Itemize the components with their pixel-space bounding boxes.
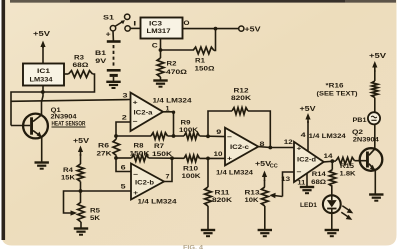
- svg-text:100K: 100K: [179, 127, 198, 134]
- svg-text:I: I: [133, 21, 136, 28]
- ground Q1 emitter: [35, 161, 49, 163]
- svg-text:2: 2: [122, 115, 127, 122]
- transistor Q1 2N3904 heat sensor: [11, 114, 48, 163]
- wire IC3 adj node: [161, 39, 194, 59]
- svg-text:R1: R1: [195, 58, 205, 65]
- svg-text:1/4 LM324: 1/4 LM324: [216, 170, 253, 177]
- svg-text:O: O: [184, 20, 190, 27]
- ground Q2 emitter: [369, 193, 383, 195]
- wire S1 to IC3 input: [130, 21, 140, 29]
- pin 11 and ground: [297, 173, 307, 187]
- svg-text:10K: 10K: [245, 197, 259, 204]
- junction row1 left: [114, 134, 118, 138]
- power +5V (top right): [369, 51, 386, 81]
- label Q2: [352, 129, 379, 144]
- wire LED to ground: [331, 213, 333, 230]
- junction out/R14: [330, 159, 334, 163]
- svg-text:IC3: IC3: [149, 20, 162, 27]
- svg-text:*R16: *R16: [326, 83, 344, 90]
- svg-text:R7: R7: [154, 143, 164, 150]
- junction row2 / IC2-b out: [170, 156, 174, 160]
- wire S1 to battery: [112, 31, 114, 41]
- svg-text:13: 13: [281, 176, 290, 183]
- wire R5 wiper loop: [64, 191, 81, 216]
- wire row1 seg b: [168, 135, 185, 137]
- terminal +5V output: [239, 25, 261, 34]
- svg-text:27K: 27K: [97, 151, 112, 158]
- ground R2: [153, 79, 167, 81]
- power +5Vcc (R13): [255, 159, 278, 187]
- svg-text:9: 9: [216, 129, 221, 136]
- svg-text:−: −: [133, 119, 138, 126]
- svg-text:100K: 100K: [182, 173, 201, 180]
- wire IC1 bottom to Q1 collector: [42, 86, 44, 115]
- junction row2 left: [114, 156, 118, 160]
- svg-text:R13: R13: [245, 189, 260, 196]
- svg-text:15K: 15K: [61, 174, 75, 181]
- svg-text:1/4 LM324: 1/4 LM324: [153, 97, 192, 104]
- svg-text:LM334: LM334: [30, 77, 53, 84]
- power +5V (IC1 supply): [33, 29, 51, 64]
- switch S1: [103, 14, 130, 31]
- svg-text:−: −: [133, 171, 138, 178]
- svg-text:R9: R9: [181, 119, 191, 126]
- wire IC2-c output to IC2-d pin 12: [258, 146, 294, 149]
- svg-text:IC2-c: IC2-c: [230, 144, 250, 151]
- op-amp IC2-d: [294, 142, 324, 182]
- svg-text:LM317: LM317: [147, 28, 171, 35]
- svg-text:(SEE TEXT): (SEE TEXT): [317, 90, 358, 97]
- svg-text:HEAT SENSOR: HEAT SENSOR: [52, 120, 86, 127]
- junction row1 / IC2-a out: [172, 134, 176, 138]
- svg-text:−: −: [297, 169, 302, 176]
- svg-text:R3: R3: [74, 55, 84, 62]
- LED1: [323, 187, 341, 214]
- svg-text:+: +: [133, 190, 138, 197]
- resistor R10 100K: [182, 155, 201, 180]
- ground R13: [258, 229, 272, 231]
- wire R13 wiper to pin 13: [269, 172, 294, 198]
- op-amp IC2-b: [131, 164, 164, 200]
- LED light arrows: [341, 206, 353, 220]
- svg-text:3: 3: [123, 92, 128, 99]
- junction row1 / R12: [206, 134, 210, 138]
- ground B1: [106, 81, 120, 83]
- svg-text:68Ω: 68Ω: [73, 62, 90, 69]
- resistor R2 470Ω: [157, 58, 188, 81]
- resistor R11 820K: [205, 158, 233, 230]
- pin 4 and +5V supply: [300, 104, 316, 151]
- svg-text:68Ω: 68Ω: [311, 179, 327, 186]
- label Q1: [51, 107, 77, 121]
- svg-text:470Ω: 470Ω: [166, 69, 188, 76]
- resistor R16 (see text): [317, 81, 378, 112]
- svg-text:150K: 150K: [130, 151, 150, 158]
- ground R5: [74, 227, 88, 229]
- svg-text:R5: R5: [90, 208, 100, 215]
- junction R4/R5/pin5: [79, 189, 83, 193]
- svg-text:+: +: [297, 146, 302, 153]
- svg-text:+: +: [133, 99, 138, 106]
- op-amp IC2-c: [225, 128, 258, 166]
- resistor R8 150K: [116, 143, 150, 162]
- svg-text:LED1: LED1: [300, 202, 317, 209]
- potentiometer R5 5K: [78, 202, 101, 229]
- svg-text:R4: R4: [63, 167, 73, 174]
- svg-text:1.8K: 1.8K: [340, 171, 356, 178]
- wire node to IC2-a pin 3: [11, 100, 131, 102]
- ground LED1: [325, 229, 339, 231]
- resistor R3 68Ω: [64, 55, 93, 78]
- svg-text:820K: 820K: [212, 197, 232, 204]
- wire IC3 output to +5V terminal: [183, 28, 240, 30]
- wire IC2-d output: [324, 160, 336, 163]
- svg-text:1/4 LM324: 1/4 LM324: [309, 133, 346, 140]
- svg-text:+5V: +5V: [73, 136, 89, 145]
- svg-text:S1: S1: [103, 15, 114, 22]
- svg-text:R12: R12: [234, 87, 249, 94]
- wire row1 seg a: [116, 135, 151, 137]
- label HEAT SENSOR (underlined): [52, 120, 86, 127]
- resistor R1 150Ω: [193, 29, 216, 73]
- svg-text:+5V: +5V: [300, 104, 316, 113]
- svg-text:CC: CC: [270, 163, 278, 169]
- resistor R9 100K: [179, 119, 200, 139]
- junction IC1/R3/Q1: [41, 90, 45, 94]
- svg-text:12: 12: [284, 139, 293, 146]
- svg-text:820K: 820K: [231, 95, 251, 102]
- svg-text:B1: B1: [95, 50, 106, 57]
- svg-text:R2: R2: [167, 61, 177, 68]
- svg-text:9V: 9V: [95, 58, 107, 65]
- resistor R12 820K feedback: [208, 87, 270, 147]
- svg-text:R15: R15: [340, 163, 354, 170]
- svg-text:+: +: [227, 156, 232, 163]
- wire PB1 to Q2 collector: [374, 124, 376, 148]
- svg-text:1/4 LM324: 1/4 LM324: [138, 199, 177, 206]
- potentiometer R13 10K: [245, 187, 269, 230]
- svg-text:2N3904: 2N3904: [353, 136, 379, 143]
- IC1 LM334: [23, 64, 64, 86]
- junction C node: [159, 48, 163, 52]
- svg-text:+5V: +5V: [255, 159, 271, 168]
- svg-text:+: +: [106, 29, 112, 38]
- wire row1 to pin 9: [200, 135, 226, 138]
- svg-text:150Ω: 150Ω: [195, 65, 216, 72]
- junction IC3 out / R1: [214, 27, 218, 31]
- junction row2 / R11: [206, 157, 210, 161]
- wire IC2-b output: [164, 158, 172, 181]
- svg-text:R10: R10: [183, 165, 198, 172]
- resistor R15 1.8K: [336, 157, 363, 177]
- ground R11: [201, 229, 215, 231]
- svg-text:6: 6: [121, 164, 126, 171]
- svg-text:Q2: Q2: [352, 129, 363, 136]
- svg-text:IC1: IC1: [37, 68, 50, 75]
- svg-text:IC2-a: IC2-a: [134, 110, 154, 117]
- svg-text:150K: 150K: [152, 151, 172, 158]
- svg-text:IC2-d: IC2-d: [297, 157, 316, 164]
- battery B1 9V: [95, 29, 121, 82]
- transistor Q2 2N3904: [360, 148, 383, 194]
- resistor R6 27K: [97, 136, 120, 158]
- junction IC2-c out / R12: [268, 146, 272, 150]
- svg-text:5K: 5K: [90, 215, 100, 222]
- wire IC2-b pin6 stub: [116, 158, 131, 172]
- wire IC2-a output: [163, 111, 175, 137]
- svg-text:C: C: [152, 42, 158, 49]
- svg-text:R6: R6: [98, 143, 109, 150]
- IC3 LM317: [141, 18, 183, 39]
- wire row2 to pin 10: [200, 157, 226, 159]
- resistor R4 15K: [61, 164, 84, 202]
- svg-text:PB1: PB1: [353, 117, 367, 124]
- svg-text:+5V: +5V: [245, 25, 261, 34]
- svg-text:5: 5: [121, 183, 126, 190]
- op-amp IC2-a: [131, 93, 164, 131]
- resistor R14 68Ω: [311, 161, 336, 186]
- svg-text:R8: R8: [134, 143, 144, 150]
- wire R3 return / IC1 output node: [11, 74, 95, 126]
- svg-text:4: 4: [301, 132, 306, 139]
- svg-text:+5V: +5V: [33, 29, 51, 38]
- piezo buzzer PB1: [368, 112, 380, 124]
- svg-text:7: 7: [166, 174, 170, 181]
- ground IC2-d pin 11: [300, 186, 314, 188]
- wire IC2-a pin2 stub: [116, 122, 131, 136]
- wire row2 seg b: [149, 157, 185, 159]
- svg-text:10: 10: [214, 151, 223, 158]
- resistor R7 150K: [151, 133, 172, 158]
- svg-text:−: −: [227, 134, 232, 141]
- svg-text:14: 14: [324, 153, 333, 160]
- svg-text:11: 11: [297, 180, 305, 187]
- svg-text:IC2-b: IC2-b: [135, 179, 154, 186]
- svg-text:FIG. 4: FIG. 4: [183, 245, 203, 249]
- svg-text:+5V: +5V: [369, 51, 386, 60]
- power +5V (R4): [73, 136, 89, 164]
- wire R4 node to IC2-b pin 5: [81, 190, 132, 192]
- svg-text:R14: R14: [312, 171, 326, 178]
- svg-text:R11: R11: [215, 189, 230, 196]
